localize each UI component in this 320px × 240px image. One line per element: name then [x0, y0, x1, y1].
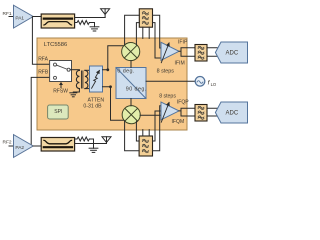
wire coupler to antenna (top) [75, 17, 106, 19]
wire RF1 input [9, 16, 14, 18]
ADC I [215, 42, 247, 63]
svg-text:RF2: RF2 [3, 139, 12, 145]
svg-text:LO: LO [211, 82, 217, 87]
wire filter outer right leg to amp (top) [153, 15, 162, 48]
switch box RFA/RFB [50, 61, 72, 82]
wire switch to balun [70, 69, 79, 71]
IC body LTC5586 [37, 38, 187, 130]
wire tap RFB from PA2 [31, 77, 50, 146]
wire filter inner right leg to amp (top) [153, 23, 162, 58]
wire LO input [146, 80, 195, 82]
wire resistor to ground (top) [89, 23, 94, 27]
svg-text:RFA: RFA [38, 57, 48, 63]
svg-text:LTC5586: LTC5586 [44, 42, 67, 48]
svg-text:RFSW: RFSW [53, 88, 68, 94]
svg-text:0-31 dB: 0-31 dB [83, 103, 102, 109]
wire filter bottom pin 1 (top) [142, 27, 144, 38]
wire atten to I mixer [103, 46, 124, 70]
IF lowpass filter (I) [195, 45, 207, 62]
wire mixer I LO port [130, 61, 132, 68]
svg-text:8 steps: 8 steps [157, 68, 175, 74]
junction dot I feed [106, 68, 109, 71]
quadrature phase shifter 0/90 deg [116, 68, 146, 99]
svg-text:IFIM: IFIM [175, 61, 185, 67]
LO source [195, 77, 205, 87]
svg-text:90 deg.: 90 deg. [126, 87, 147, 93]
RFSW control arrow [59, 82, 63, 88]
svg-text:PA2: PA2 [15, 145, 24, 151]
wire coupler to resistor (top) [75, 22, 77, 24]
amplifier PA2 [14, 135, 34, 158]
wire filter outer right leg to amp (bottom) [153, 106, 162, 151]
wire filter outer left leg (bottom) [125, 121, 140, 151]
svg-text:SPI: SPI [54, 109, 62, 115]
variable attenuator ATTEN [90, 66, 103, 92]
wire coupler to antenna (bottom) [75, 143, 107, 145]
ground (balun) [70, 93, 77, 97]
wire PA2 output to coupler [33, 145, 41, 147]
svg-text:IFQP: IFQP [177, 99, 189, 105]
svg-text:8 steps: 8 steps [159, 93, 176, 99]
ground (top) [90, 27, 99, 31]
wire mixer Q LO port [130, 99, 132, 106]
ground (bottom) [89, 148, 98, 152]
SPI block [48, 105, 69, 119]
wire filter top pin 2 (bottom) [148, 130, 150, 136]
mixer I [122, 43, 140, 61]
svg-text:ADC: ADC [226, 50, 239, 56]
svg-text:RFB: RFB [38, 70, 49, 76]
balun transformer [76, 70, 88, 88]
IF amplifier I (8 steps) [161, 42, 179, 62]
wire tap down to RFA [32, 17, 49, 65]
external IF filter (top) [139, 9, 152, 27]
wire balun secondary top to atten [85, 69, 90, 71]
wire resistor to ground (bottom) [89, 139, 93, 148]
IF amplifier Q (8 steps) [161, 102, 179, 122]
antenna (top) [101, 9, 110, 18]
mixer Q [122, 106, 140, 124]
wire filter inner right leg to amp (bottom) [153, 111, 162, 141]
wire PA1 output to coupler [33, 16, 41, 18]
resistor R-term (bottom) [77, 137, 89, 141]
directional coupler (top) [41, 14, 74, 28]
wire filter outer left leg (top) [125, 15, 140, 44]
external IF filter (bottom) [139, 136, 152, 156]
wire amp Q outputs [179, 108, 217, 116]
svg-text:IFQM: IFQM [172, 119, 185, 125]
wire filter bottom pin 2 (top) [148, 27, 150, 38]
ADC Q [215, 102, 247, 123]
resistor R-term (top) [77, 21, 89, 25]
wire filter inner left leg (top) [136, 23, 139, 45]
wire atten to Q mixer [103, 87, 125, 120]
wire RF2 input [9, 145, 14, 147]
amplifier PA1 [14, 5, 34, 28]
wire balun secondary bottom to atten [85, 88, 90, 90]
junction dot Q feed [109, 85, 112, 88]
antenna (bottom) [102, 137, 111, 144]
wire mixer Q output rail [140, 114, 161, 116]
wire filter inner left leg (bottom) [136, 121, 139, 141]
IF lowpass filter (Q) [195, 105, 207, 122]
svg-text:ADC: ADC [226, 110, 239, 116]
wire amp I outputs [179, 48, 217, 56]
directional coupler (bottom) [41, 138, 74, 152]
wire coupler to resistor (bottom) [75, 138, 77, 140]
svg-text:0 deg.: 0 deg. [117, 69, 135, 75]
svg-text:IFIP: IFIP [178, 39, 188, 45]
wire balun primary to ground [73, 89, 79, 93]
svg-text:PA1: PA1 [15, 16, 24, 22]
wire filter top pin 1 (bottom) [142, 130, 144, 136]
